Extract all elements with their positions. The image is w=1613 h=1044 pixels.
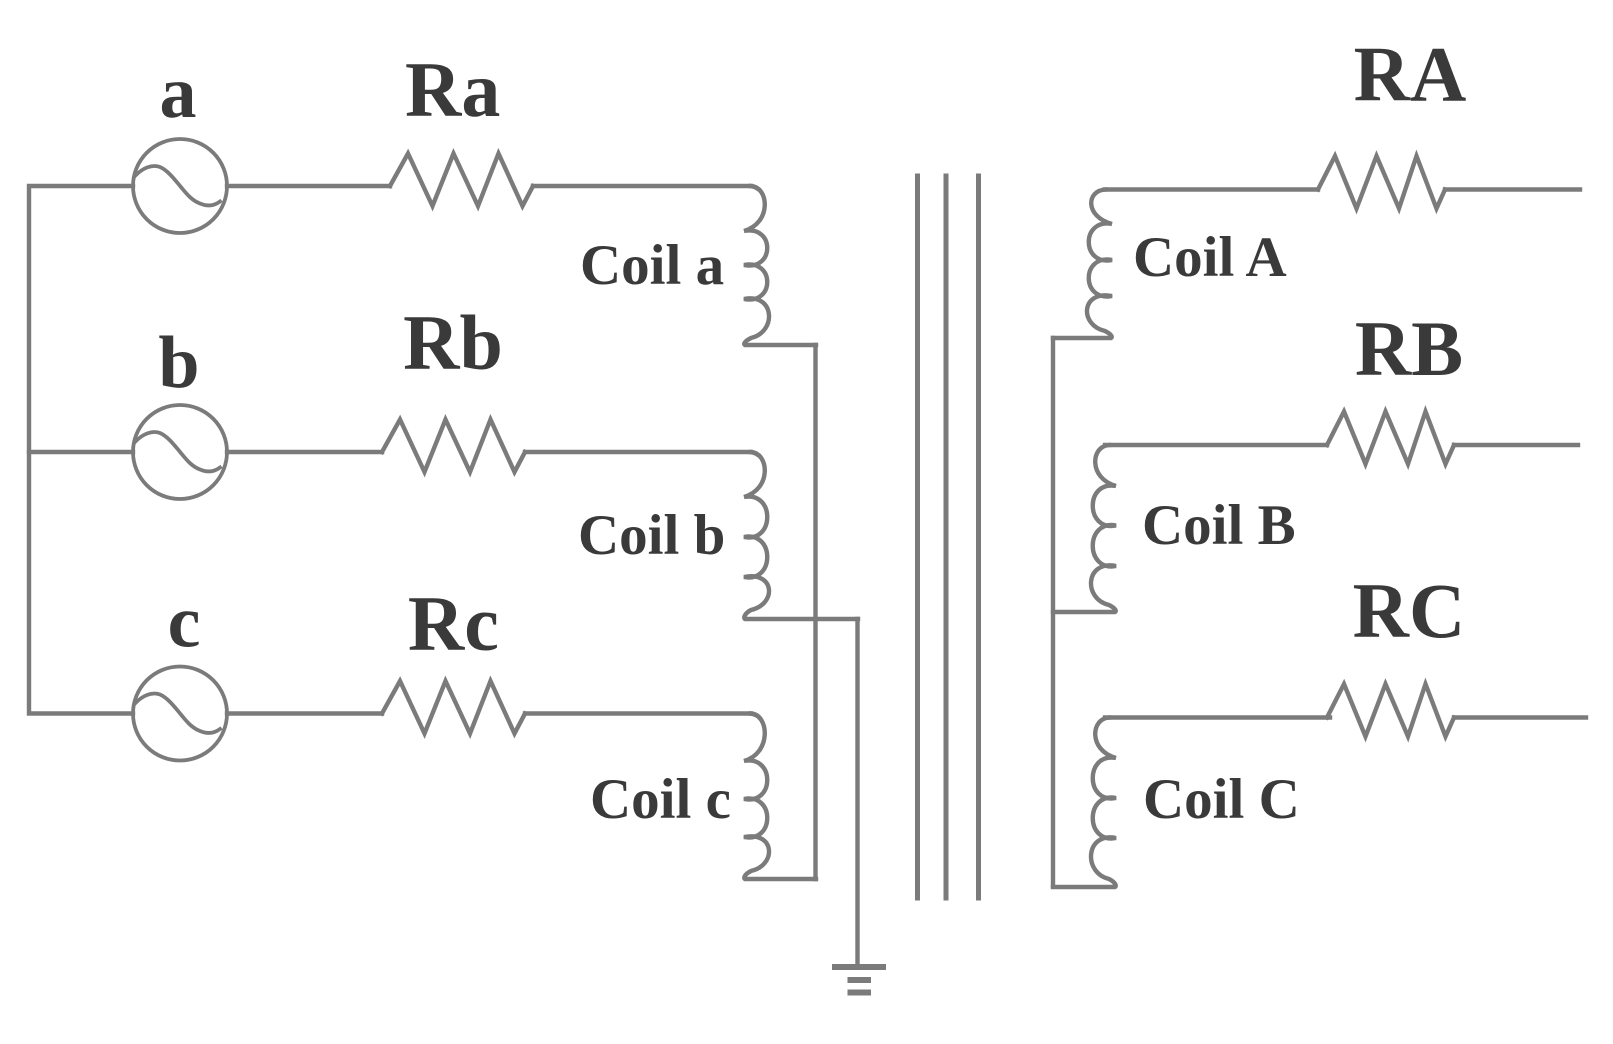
svg-text:Coil A: Coil A	[1133, 226, 1287, 289]
svg-text:Coil B: Coil B	[1142, 494, 1296, 557]
transformer core line 3	[976, 176, 981, 898]
resistor RC	[1327, 684, 1454, 737]
wire: RC to output C	[1454, 715, 1586, 719]
AC source a	[133, 139, 227, 233]
inductor Coil C (secondary)	[1053, 718, 1116, 888]
wire: Coil B to resistor RB	[1105, 443, 1327, 447]
svg-text:RB: RB	[1355, 305, 1463, 392]
inductor Coil b (primary)	[744, 452, 858, 619]
AC source c	[133, 667, 227, 761]
resistor Rc	[382, 681, 525, 734]
wire: source b to resistor Rb	[227, 450, 382, 454]
AC source b	[133, 405, 227, 499]
wire: rail to source b	[29, 450, 133, 454]
wire: left bus rail	[29, 186, 133, 714]
wire: Rc to Coil c	[525, 711, 751, 715]
svg-text:a: a	[160, 52, 197, 134]
inductor Coil a (primary)	[744, 186, 816, 345]
ground symbol	[832, 967, 886, 993]
inductor Coil A (secondary)	[1053, 190, 1112, 339]
svg-text:Coil a: Coil a	[580, 234, 724, 297]
wire: Rb to Coil b	[525, 450, 751, 454]
wire: Coil C to resistor RC	[1105, 715, 1330, 719]
wire: source c to resistor Rc	[227, 711, 382, 715]
svg-text:Coil b: Coil b	[578, 504, 725, 567]
wire: Coil A to resistor RA	[1105, 187, 1318, 191]
transformer core line 2	[944, 176, 949, 898]
svg-text:Coil c: Coil c	[590, 768, 731, 831]
inductor Coil c (primary)	[744, 714, 816, 880]
wire: RA to output A	[1445, 187, 1580, 191]
wire: source a to resistor Ra	[227, 184, 390, 188]
resistor Rb	[382, 420, 525, 473]
wire: neutral from Coil b bottom down to ground	[855, 619, 859, 967]
wire: node joining Coil a bottom to Coil c bottom	[813, 345, 817, 879]
svg-text:Rb: Rb	[403, 299, 503, 386]
svg-text:RC: RC	[1353, 567, 1466, 654]
svg-text:Coil C: Coil C	[1143, 768, 1300, 831]
svg-text:RA: RA	[1354, 31, 1467, 118]
inductor Coil B (secondary)	[1053, 445, 1116, 612]
resistor RA	[1318, 156, 1445, 209]
svg-text:c: c	[168, 582, 201, 664]
svg-text:Ra: Ra	[405, 46, 500, 133]
resistor RB	[1327, 412, 1454, 465]
wire: RB to output B	[1454, 443, 1578, 447]
wire: Ra to Coil a	[533, 184, 751, 188]
wire: secondary common node vertical	[1051, 338, 1055, 886]
transformer core line 1	[915, 176, 920, 898]
resistor Ra	[390, 154, 533, 207]
svg-text:Rc: Rc	[408, 580, 499, 667]
svg-text:b: b	[158, 322, 199, 404]
